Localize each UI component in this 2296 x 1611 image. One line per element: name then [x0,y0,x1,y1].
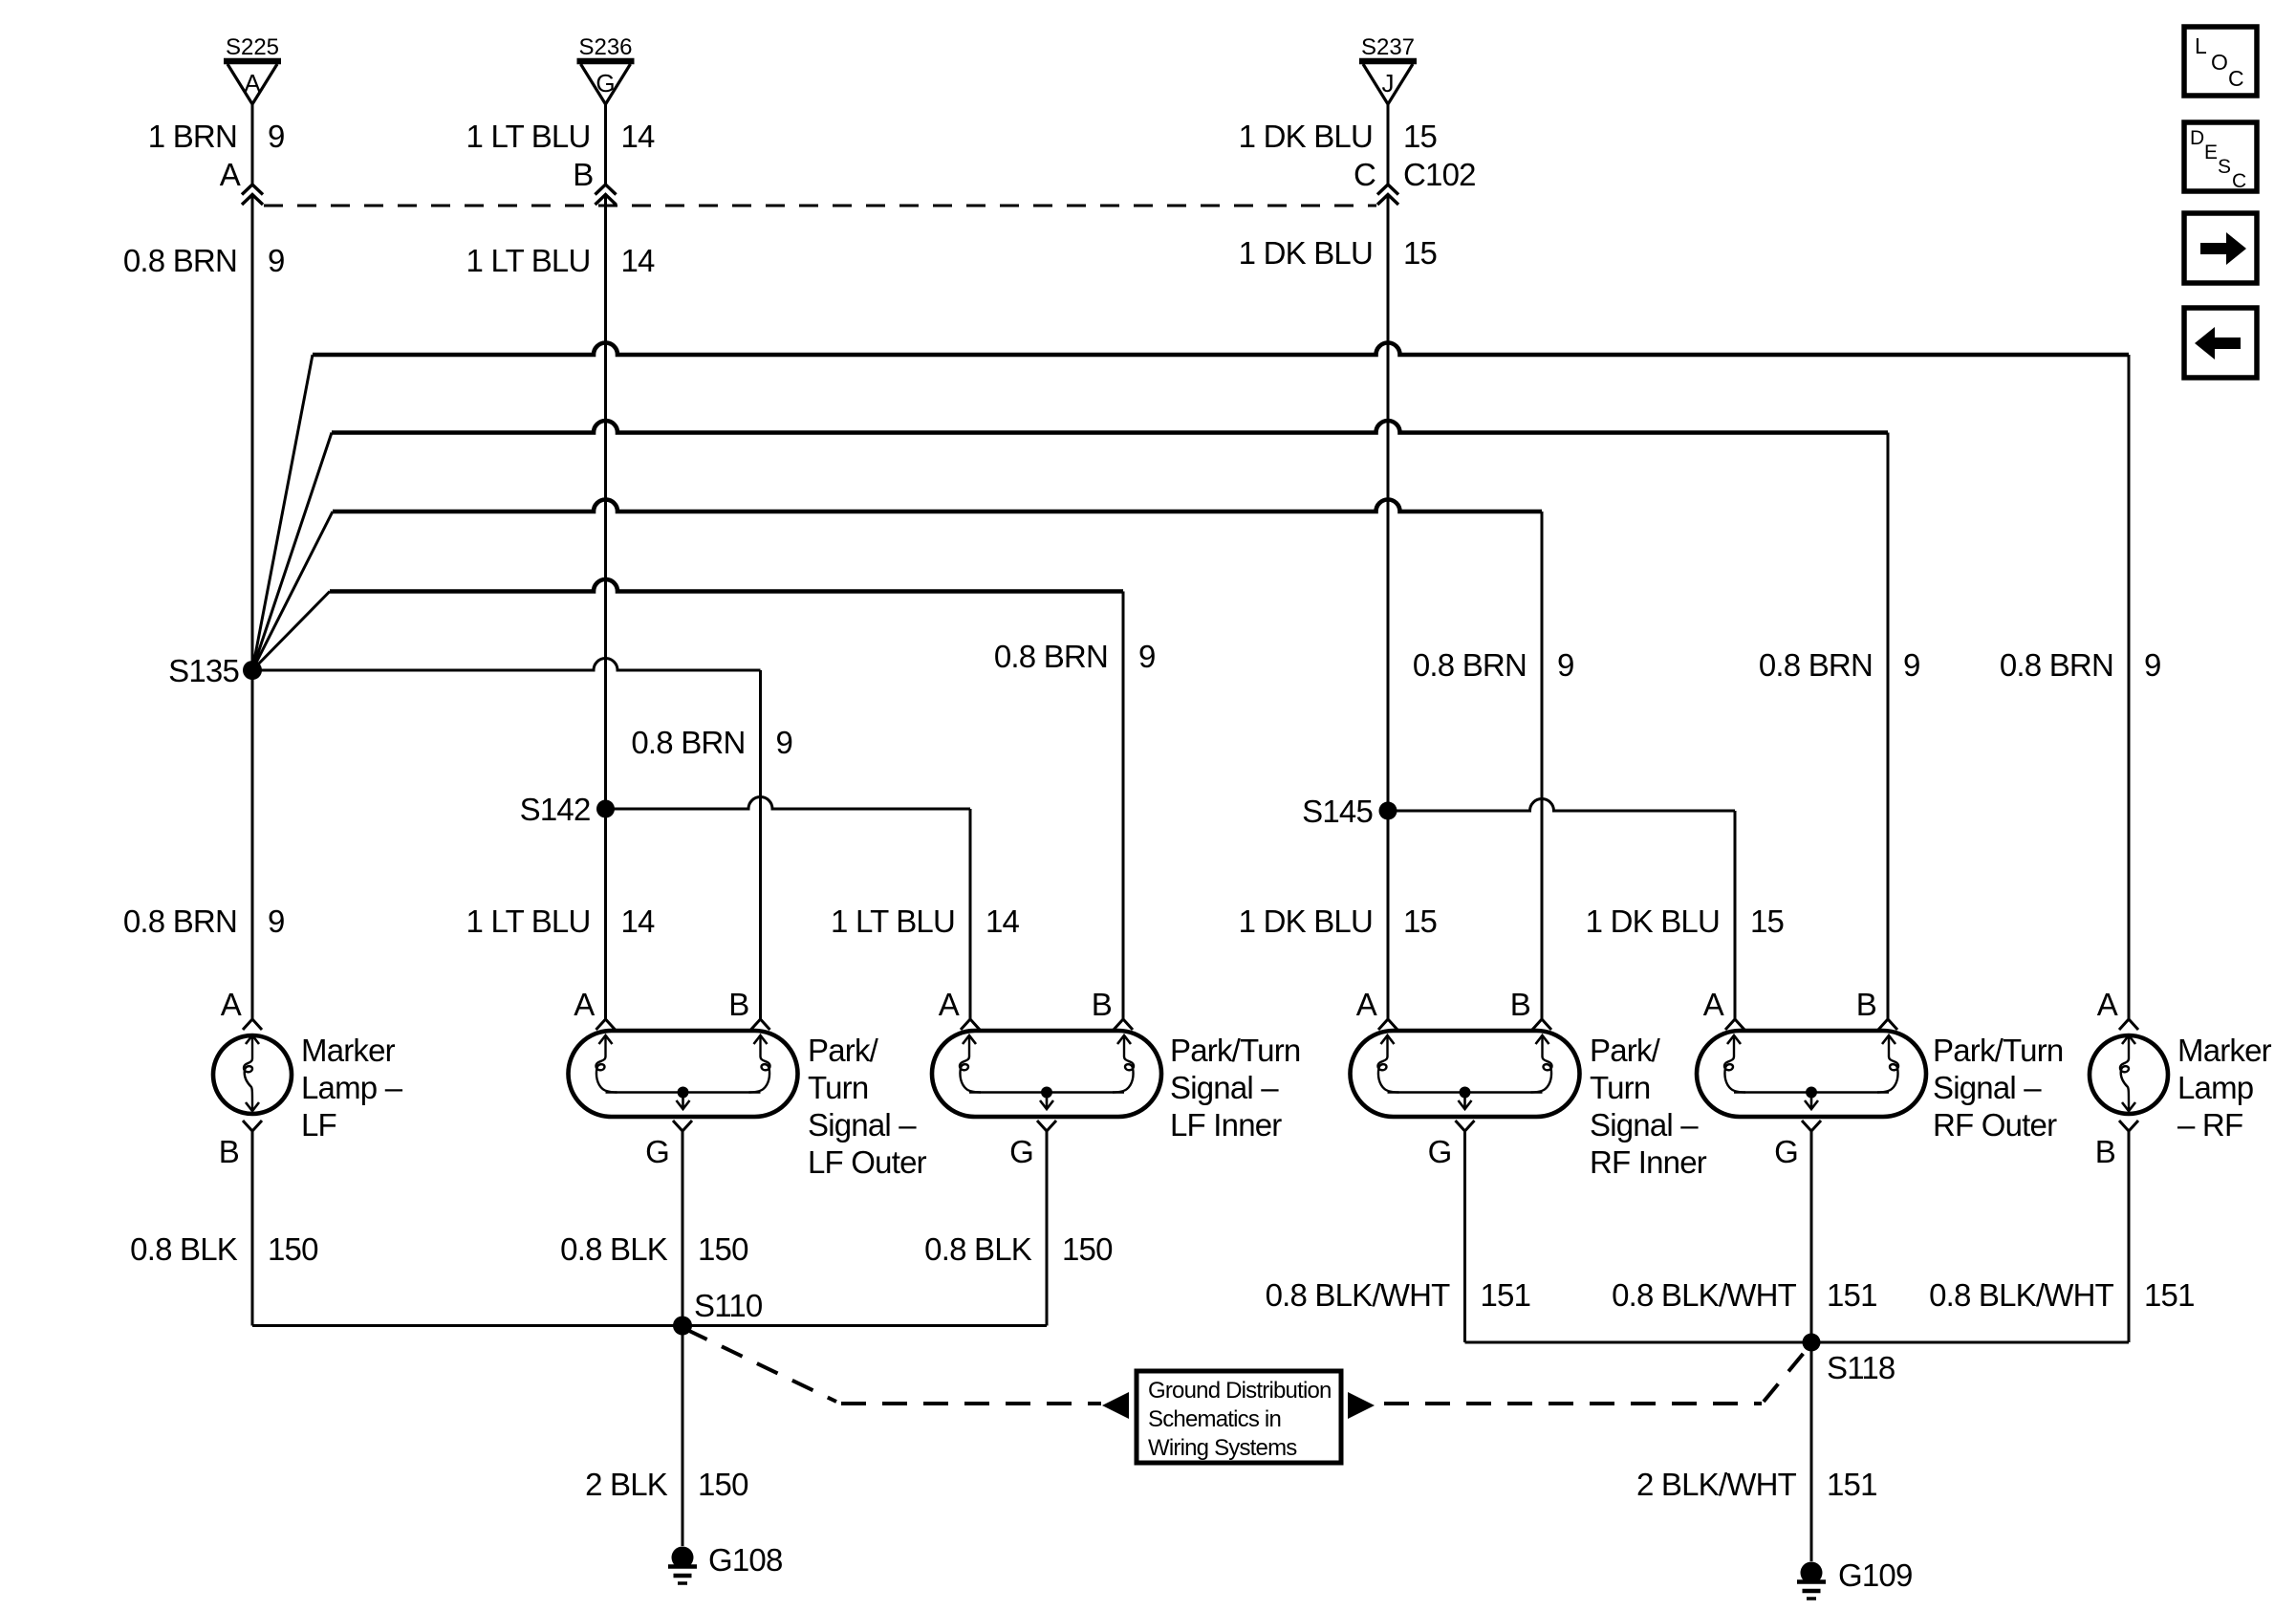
wire drop to LF Inner A [969,809,972,1019]
svg-text:B: B [728,987,748,1022]
svg-text:150: 150 [698,1467,748,1502]
svg-text:0.8 BRN: 0.8 BRN [2000,647,2113,683]
in-line connector chevrons at B [596,185,617,195]
ground G109 [1797,1562,1826,1600]
pin G below lamp [1456,1121,1475,1131]
splice S135 [243,661,262,680]
svg-text:O: O [2211,50,2228,75]
svg-text:S118: S118 [1827,1350,1895,1385]
wire S142 to LF Inner A [606,797,971,810]
svg-text:Wiring Systems: Wiring Systems [1148,1435,1297,1461]
lamp Park/Turn Signal - RF Inner [1351,1031,1707,1180]
svg-text:9: 9 [268,243,285,278]
svg-text:Schematics in: Schematics in [1148,1406,1281,1432]
pin tick [751,1019,770,1030]
svg-text:1 DK BLU: 1 DK BLU [1239,903,1373,939]
svg-text:Signal –: Signal – [1170,1070,1279,1105]
wire RF Inner G down [1463,1131,1466,1342]
svg-text:1 DK BLU: 1 DK BLU [1239,119,1373,154]
wire drop to LF Outer B [759,670,762,1019]
pin tick [961,1019,980,1030]
wire S118 to G109 [1810,1342,1813,1561]
svg-text:G108: G108 [708,1542,783,1578]
in-line connector chevrons at A [242,185,263,195]
svg-text:14: 14 [621,903,656,939]
pin tick [596,1019,616,1030]
svg-text:Signal –: Signal – [1590,1107,1699,1143]
wire bus to Marker RF [313,342,2129,355]
svg-text:S145: S145 [1302,794,1373,829]
svg-text:A: A [221,987,242,1022]
svg-text:C102: C102 [1403,157,1476,192]
svg-text:15: 15 [1750,903,1784,939]
svg-text:Marker: Marker [301,1033,396,1068]
legend box DESC [2184,122,2257,192]
splice connector S236 (triangle G) [577,34,635,104]
svg-text:0.8 BRN: 0.8 BRN [1413,647,1527,683]
svg-text:2 BLK: 2 BLK [585,1467,668,1502]
svg-text:A: A [939,987,960,1022]
pin tick [2119,1019,2138,1030]
svg-text:151: 151 [1827,1277,1877,1313]
svg-text:0.8 BLK/WHT: 0.8 BLK/WHT [1266,1277,1451,1313]
svg-text:0.8 BLK: 0.8 BLK [560,1231,668,1267]
svg-text:C: C [1354,157,1375,192]
svg-text:Turn: Turn [1590,1070,1650,1105]
svg-text:151: 151 [1827,1467,1877,1502]
svg-text:A: A [1356,987,1377,1022]
svg-text:Marker: Marker [2177,1033,2272,1068]
lamp Park/Turn Signal - LF Inner [932,1031,1300,1143]
wire drop to Marker RF A [2128,355,2131,1019]
svg-text:G: G [645,1134,669,1169]
svg-text:B: B [219,1134,239,1169]
svg-text:0.8 BRN: 0.8 BRN [631,725,745,760]
svg-text:RF Inner: RF Inner [1590,1144,1707,1180]
svg-text:J: J [1382,69,1395,98]
pin tick [1378,1019,1397,1030]
wire RF Outer G down [1810,1131,1813,1342]
ground G108 [668,1547,697,1584]
splice S118 [1803,1334,1821,1352]
svg-text:15: 15 [1403,903,1437,939]
dashed line connector C102 [264,205,1376,207]
svg-text:Park/: Park/ [808,1033,879,1068]
svg-text:9: 9 [1557,647,1574,683]
wire diagonal S135 to bus 1 [252,355,313,670]
lamp Marker Lamp - RF [2090,1033,2272,1143]
svg-text:G: G [1009,1134,1033,1169]
lamp Marker Lamp - LF [213,1033,403,1143]
splice S145 [1379,802,1397,820]
svg-text:Park/Turn: Park/Turn [1933,1033,2063,1068]
svg-text:150: 150 [698,1231,748,1267]
arrowhead right [1348,1392,1375,1419]
svg-text:A: A [574,987,595,1022]
svg-text:A: A [220,157,241,192]
svg-text:A: A [244,69,261,98]
svg-text:LF Inner: LF Inner [1170,1107,1282,1143]
svg-text:G: G [1428,1134,1452,1169]
svg-text:L: L [2195,33,2207,58]
svg-text:Lamp –: Lamp – [301,1070,403,1105]
svg-text:RF Outer: RF Outer [1933,1107,2057,1143]
svg-text:Turn: Turn [808,1070,868,1105]
svg-text:0.8 BRN: 0.8 BRN [1759,647,1873,683]
wire bus to RF Outer B [332,421,1888,433]
pin tick [1878,1019,1897,1030]
lamp Park/Turn Signal - LF Outer [569,1031,927,1180]
legend box arrow right [2184,213,2257,283]
svg-text:A: A [2097,987,2118,1022]
svg-text:B: B [1856,987,1876,1022]
svg-text:S225: S225 [226,34,279,60]
svg-text:E: E [2204,142,2218,163]
svg-text:Lamp: Lamp [2177,1070,2253,1105]
svg-text:9: 9 [1903,647,1920,683]
svg-text:S110: S110 [694,1288,763,1323]
arrowhead left [1102,1392,1129,1419]
wire S135 to LF Outer B [252,659,761,671]
wire Marker LF B down [251,1131,254,1326]
svg-text:1 DK BLU: 1 DK BLU [1239,235,1373,271]
svg-text:D: D [2190,127,2204,149]
svg-text:B: B [1092,987,1112,1022]
svg-text:S135: S135 [168,653,239,688]
note box Ground Distribution Schematics in Wiring Systems [1137,1371,1341,1463]
svg-text:S236: S236 [578,34,632,60]
in-line connector chevrons at C [1377,185,1398,195]
dashed pointer to S118 [1384,1402,1762,1405]
svg-text:Signal –: Signal – [1933,1070,2042,1105]
svg-text:14: 14 [621,119,656,154]
svg-text:0.8 BRN: 0.8 BRN [123,243,237,278]
svg-text:9: 9 [776,725,793,760]
wire LF Outer G down [682,1131,684,1326]
svg-text:9: 9 [268,119,285,154]
svg-text:A: A [1703,987,1724,1022]
wire LF Inner G down [1046,1131,1049,1326]
wire from S237 down to RF Inner A [1387,104,1390,185]
svg-text:0.8 BLK/WHT: 0.8 BLK/WHT [1612,1277,1797,1313]
svg-text:S142: S142 [520,792,591,827]
svg-text:15: 15 [1403,235,1437,271]
svg-text:2 BLK/WHT: 2 BLK/WHT [1636,1467,1797,1502]
wire S110 to G108 [682,1326,684,1547]
svg-text:C: C [2232,170,2246,192]
wire diagonal S135 to bus 2 [252,433,332,671]
svg-text:Ground Distribution: Ground Distribution [1148,1378,1332,1404]
svg-text:9: 9 [268,903,285,939]
splice S142 [596,800,615,818]
lamp Park/Turn Signal - RF Outer [1697,1031,2063,1143]
svg-text:LF Outer: LF Outer [808,1144,927,1180]
svg-text:S237: S237 [1361,34,1415,60]
wire from S225 down to Marker LF A [251,104,254,185]
legend box arrow left [2184,308,2257,378]
svg-text:14: 14 [621,243,656,278]
wire drop to RF Inner B [1541,512,1544,1019]
svg-text:S: S [2218,156,2231,178]
svg-text:G: G [596,69,615,98]
wire Marker RF B down [2128,1131,2131,1342]
svg-text:Signal –: Signal – [808,1107,917,1143]
svg-text:G109: G109 [1838,1557,1913,1593]
svg-text:G: G [1774,1134,1798,1169]
wire diagonal S135 to bus 3 [252,512,333,670]
dashed pointer from S110 [686,1330,836,1403]
wire bus to LF Inner B [330,579,1123,592]
wire from S236 down to LF Outer A [604,104,607,185]
svg-text:1 LT BLU: 1 LT BLU [831,903,955,939]
splice connector S237 (triangle J) [1359,34,1417,104]
svg-text:B: B [1510,987,1530,1022]
svg-text:15: 15 [1403,119,1437,154]
svg-text:0.8 BRN: 0.8 BRN [123,903,237,939]
svg-text:9: 9 [1138,639,1156,674]
pin tick [243,1019,262,1030]
svg-text:1 BRN: 1 BRN [148,119,237,154]
svg-text:B: B [573,157,593,192]
svg-text:9: 9 [2144,647,2161,683]
wire drop to RF Outer B [1887,433,1890,1020]
svg-text:1 LT BLU: 1 LT BLU [466,243,591,278]
pin B below lamp [2119,1121,2138,1131]
pin G below lamp [1037,1121,1056,1131]
splice S110 [673,1317,692,1336]
wire ground collector left [252,1324,1047,1327]
svg-text:1 LT BLU: 1 LT BLU [466,903,591,939]
svg-text:0.8 BLK/WHT: 0.8 BLK/WHT [1929,1277,2114,1313]
wire ground collector right [1465,1341,2130,1344]
wire drop to RF Outer A [1734,811,1737,1019]
svg-text:0.8 BLK: 0.8 BLK [130,1231,238,1267]
svg-text:1 LT BLU: 1 LT BLU [466,119,591,154]
splice connector S225 (triangle A) [224,34,281,104]
svg-text:Park/: Park/ [1590,1033,1661,1068]
svg-text:Park/Turn: Park/Turn [1170,1033,1300,1068]
pin B below lamp [243,1121,262,1131]
svg-text:14: 14 [986,903,1020,939]
pin tick [1114,1019,1133,1030]
legend box LOC [2184,27,2257,96]
pin tick [1725,1019,1744,1030]
svg-text:0.8 BRN: 0.8 BRN [994,639,1108,674]
svg-text:LF: LF [301,1107,336,1143]
pin G below lamp [1802,1121,1821,1131]
svg-text:150: 150 [268,1231,318,1267]
svg-text:150: 150 [1062,1231,1113,1267]
svg-text:0.8 BLK: 0.8 BLK [924,1231,1032,1267]
wire bus to RF Inner B [333,500,1542,512]
svg-text:C: C [2228,66,2244,91]
svg-text:151: 151 [1481,1277,1531,1313]
wire diagonal S135 to bus 4 [252,592,330,671]
wire S145 to RF Outer A [1388,798,1735,811]
svg-text:1 DK BLU: 1 DK BLU [1586,903,1720,939]
pin tick [1532,1019,1551,1030]
svg-text:– RF: – RF [2177,1107,2242,1143]
svg-text:B: B [2095,1134,2115,1169]
wire drop to LF Inner B [1122,592,1125,1020]
pin G below lamp [673,1121,692,1131]
svg-text:151: 151 [2144,1277,2195,1313]
